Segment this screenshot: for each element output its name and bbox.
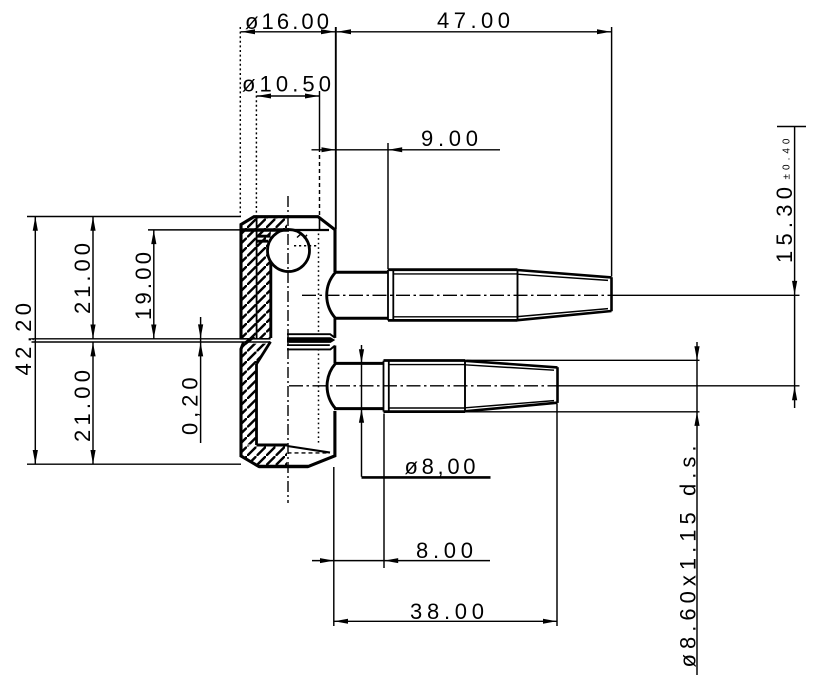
ext line d10.5 right dashed part	[319, 148, 321, 216]
bore hidden dotted horizontal	[294, 245, 319, 247]
ext line 47 right	[611, 27, 613, 277]
joint gap upper band	[287, 337, 335, 343]
ext line 9.00 right	[387, 143, 389, 269]
top pin thread start lines	[388, 270, 393, 321]
arrow 15.30 lower	[792, 386, 797, 400]
lower-half top face right	[287, 346, 335, 350]
body upper inner top surface	[241, 228, 289, 232]
top pin centerline	[302, 294, 611, 296]
bottom pin root bottom edge	[334, 407, 384, 410]
svg-text:21.00: 21.00	[70, 243, 95, 314]
top pin taper OD	[518, 270, 612, 320]
ext line 38 left	[333, 467, 335, 626]
d8.00 leader shoulder	[362, 476, 491, 479]
svg-text:38.00: 38.00	[410, 599, 484, 624]
arrow 47 left	[337, 29, 351, 34]
top pin root top edge	[335, 271, 388, 274]
arrow d8.60 bottom	[694, 412, 699, 426]
thread relief bars	[257, 236, 271, 241]
dim line 9.00	[312, 149, 501, 151]
arrow 9.00 right outside	[388, 147, 402, 152]
cup lead-in chamfer	[257, 342, 271, 364]
dim line 21.00 top	[92, 217, 94, 339]
arrow 9.00 left outside	[322, 147, 336, 152]
cup bottom hidden dashed	[288, 452, 330, 454]
arrow 19 bottom	[151, 325, 156, 339]
ball in cup	[268, 230, 310, 272]
bore wall line upper	[256, 218, 258, 339]
arrow 42.20 bottom	[33, 450, 38, 464]
svg-text:42,20: 42,20	[11, 303, 36, 376]
dim line 0.20	[200, 317, 202, 443]
bottom pin thread OD lines	[384, 361, 466, 412]
svg-text:0,20: 0,20	[178, 377, 203, 435]
body lower bottom edge thick	[259, 465, 308, 468]
bore right edge in top band	[319, 217, 321, 231]
d8.00 leader vertical	[361, 345, 363, 477]
ext line d16 left dashed	[239, 27, 241, 216]
arrow d10.5 right	[305, 94, 319, 99]
bottom pin root top edge	[335, 362, 384, 365]
top pin taper start line	[517, 270, 519, 319]
arrow 8.00 left outside	[320, 558, 334, 563]
top pin end face	[610, 277, 613, 311]
ext line d8.60 bottom	[465, 411, 700, 413]
d8.60 dim vertical	[696, 342, 698, 675]
arrow 47 right	[597, 29, 611, 34]
arrow 38 left	[334, 619, 348, 624]
top pin taper minor	[518, 274, 609, 316]
svg-text:9.00: 9.00	[421, 126, 478, 151]
top pin thread minor lines	[393, 274, 518, 317]
arrow d8.60 top	[694, 346, 699, 360]
bottom pin thread start lines	[384, 361, 389, 412]
arrow 0.20 upper	[198, 324, 203, 338]
svg-text:19.00: 19.00	[131, 252, 156, 320]
dim line d10.5	[257, 95, 320, 97]
joint left notch stroke	[245, 337, 254, 344]
arrow 21t bottom	[90, 325, 95, 339]
dim line 19.00	[153, 230, 155, 339]
arrow 8.00 right outside	[384, 558, 398, 563]
bore hidden dotted lower	[318, 349, 320, 444]
top pin root bottom edge	[334, 317, 388, 320]
arrow d10.5 left	[257, 94, 271, 99]
arrow 0.20 lower	[198, 342, 203, 356]
small marks in bore	[297, 234, 307, 239]
inner top surface right part	[289, 229, 329, 231]
svg-text:8.00: 8.00	[416, 538, 473, 563]
ext line shared x336	[335, 27, 337, 229]
bottom pin centerline extension	[557, 385, 800, 387]
cup inner wall lower	[255, 364, 258, 445]
left ext joint lines	[32, 339, 241, 342]
body lower outline	[241, 343, 335, 467]
arrow d16 left	[241, 29, 255, 34]
arrow 42.20 top	[33, 217, 38, 231]
arrow d8 top	[359, 349, 364, 363]
body upper outline	[241, 217, 335, 339]
bore inner wall thick upper	[269, 262, 272, 339]
svg-text:47.00: 47.00	[437, 8, 510, 33]
bottom pin taper OD	[465, 361, 558, 412]
dim line 21.00 bottom	[92, 342, 94, 464]
arrow 21b top	[90, 342, 95, 356]
top pin root bulge	[327, 272, 336, 318]
arrow 19 top	[151, 230, 156, 244]
arrow d16 right	[321, 29, 335, 34]
bottom pin taper minor	[465, 365, 554, 408]
joint thin lines left	[240, 339, 271, 342]
arrow d8 bottom	[359, 409, 364, 423]
cup bottom	[257, 444, 288, 447]
vertical centerline	[287, 196, 289, 503]
svg-text:ø16.00: ø16.00	[245, 9, 329, 34]
svg-text:ø8,00: ø8,00	[405, 454, 476, 479]
bottom pin root bulge	[327, 363, 335, 408]
ext line 38 right	[556, 404, 558, 626]
left ext line top	[27, 216, 241, 218]
hatch top band	[242, 217, 288, 230]
ext line d8.60 top	[467, 359, 700, 361]
dim line 42.20	[34, 217, 36, 465]
arrow 21b bottom	[90, 450, 95, 464]
svg-text:21.00: 21.00	[70, 370, 95, 442]
dim line 38.00	[334, 620, 557, 622]
left ext line bottom	[27, 463, 241, 465]
hatch bottom band	[241, 446, 287, 467]
joint gap lower line	[287, 344, 330, 346]
bottom pin centerline	[289, 385, 557, 387]
bottom pin end face	[556, 367, 559, 403]
svg-text:15.30: 15.30	[772, 187, 797, 263]
bottom pin taper start line	[464, 361, 466, 411]
ext line d10.5 left dashed	[255, 91, 257, 216]
arrow 15.30 upper	[792, 281, 797, 295]
dim line 8.00	[312, 560, 490, 562]
arrow 38 right	[543, 619, 557, 624]
ext line 8.00 right	[383, 414, 385, 569]
arrow 21t top	[90, 217, 95, 231]
bottom pin thread minor lines	[389, 365, 466, 408]
dim line 47	[337, 31, 612, 33]
top pin centerline extension	[611, 294, 800, 296]
body lower right edge above root	[333, 346, 336, 364]
upper-half bottom face right	[287, 334, 335, 338]
cup bottom diagonal	[287, 446, 330, 453]
body upper right edge between pins	[333, 318, 336, 338]
bore hidden dotted upper	[318, 234, 320, 335]
hatch lower left wall	[241, 344, 270, 445]
ext line d10.5 right	[319, 91, 321, 148]
top pin thread OD lines	[388, 270, 518, 321]
hatch upper left wall	[241, 230, 271, 339]
ext line 19 top	[148, 229, 242, 231]
dim 15.30 vertical	[794, 127, 796, 409]
dim line d16	[241, 31, 336, 33]
tick 15.30 top	[777, 126, 806, 128]
